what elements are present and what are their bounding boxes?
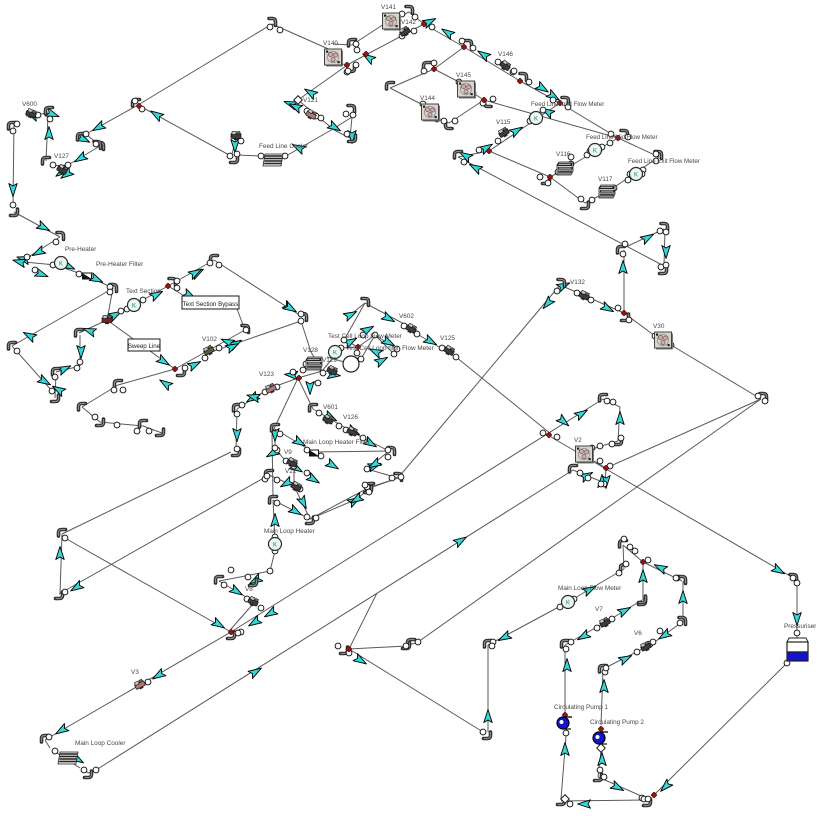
svg-text:K: K xyxy=(59,261,63,267)
svg-text:Main Loop Flow Meter: Main Loop Flow Meter xyxy=(558,585,622,592)
svg-text:Test Cell Loop high Flow Meter: Test Cell Loop high Flow Meter xyxy=(346,345,435,352)
svg-text:V140: V140 xyxy=(323,40,338,47)
svg-text:Feed Line Cooler: Feed Line Cooler xyxy=(259,143,309,150)
svg-text:K: K xyxy=(132,303,136,309)
svg-text:V30: V30 xyxy=(653,323,665,330)
svg-text:V128: V128 xyxy=(303,347,318,354)
svg-text:V125: V125 xyxy=(440,335,455,342)
svg-text:V142: V142 xyxy=(401,19,416,26)
svg-text:V116: V116 xyxy=(556,151,571,158)
svg-text:V132: V132 xyxy=(570,279,585,286)
svg-text:V121: V121 xyxy=(303,97,318,104)
svg-text:Pressuriser: Pressuriser xyxy=(784,623,817,630)
svg-text:Pre-Heater Filter: Pre-Heater Filter xyxy=(96,261,144,268)
svg-text:Main Loop Cooler: Main Loop Cooler xyxy=(75,740,126,747)
svg-text:Pre-Heater: Pre-Heater xyxy=(65,246,97,253)
svg-text:V3: V3 xyxy=(131,669,139,676)
svg-text:V102: V102 xyxy=(202,336,217,343)
svg-text:K: K xyxy=(566,600,570,606)
svg-text:Feed Line Inlet Flow Meter: Feed Line Inlet Flow Meter xyxy=(531,101,604,108)
svg-text:V22: V22 xyxy=(285,468,297,475)
svg-text:V145: V145 xyxy=(456,72,471,79)
svg-text:V601: V601 xyxy=(323,404,338,411)
svg-text:V9: V9 xyxy=(284,449,292,456)
svg-text:V117: V117 xyxy=(598,176,613,183)
svg-text:Feed Line Mid Flow Meter: Feed Line Mid Flow Meter xyxy=(586,134,658,141)
svg-text:Sweep Line: Sweep Line xyxy=(128,343,161,350)
svg-text:K: K xyxy=(534,116,538,122)
svg-text:V602: V602 xyxy=(399,313,414,320)
svg-text:V115: V115 xyxy=(496,119,511,126)
svg-text:K: K xyxy=(634,172,638,178)
svg-text:K: K xyxy=(333,350,337,356)
svg-text:Text Section Bypass: Text Section Bypass xyxy=(183,301,239,308)
svg-text:Main Loop Heater: Main Loop Heater xyxy=(264,528,316,535)
svg-text:Feed Line Exit Flow Meter: Feed Line Exit Flow Meter xyxy=(628,158,700,165)
svg-text:Circulating Pump 1: Circulating Pump 1 xyxy=(554,704,608,711)
svg-text:V126: V126 xyxy=(343,414,358,421)
svg-text:V129: V129 xyxy=(322,357,337,364)
svg-text:Main Loop Heater Filter: Main Loop Heater Filter xyxy=(303,439,371,446)
svg-text:V7: V7 xyxy=(595,606,603,613)
svg-text:Circulating Pump 2: Circulating Pump 2 xyxy=(590,719,644,726)
svg-text:Text Section: Text Section xyxy=(126,288,161,295)
svg-text:K: K xyxy=(273,542,277,548)
svg-text:Test Cell Loop Flow Meter: Test Cell Loop Flow Meter xyxy=(328,333,403,340)
svg-text:V600: V600 xyxy=(22,101,37,108)
svg-text:V8: V8 xyxy=(245,586,253,593)
svg-text:V146: V146 xyxy=(498,51,513,58)
svg-text:V141: V141 xyxy=(381,4,396,11)
svg-text:V144: V144 xyxy=(420,95,435,102)
svg-text:V6: V6 xyxy=(634,630,642,637)
svg-text:V127: V127 xyxy=(54,153,69,160)
svg-text:K: K xyxy=(593,148,597,154)
svg-text:V123: V123 xyxy=(259,371,274,378)
svg-text:V2: V2 xyxy=(574,437,582,444)
